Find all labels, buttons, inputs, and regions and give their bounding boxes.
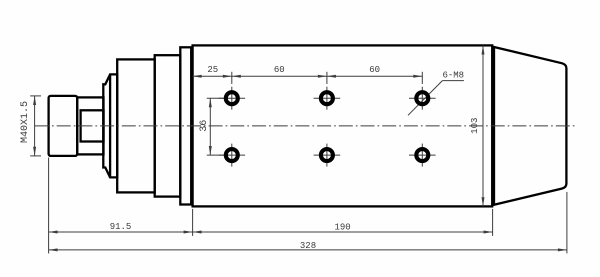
svg-text:190: 190 xyxy=(334,223,350,233)
36 top ext xyxy=(207,97,227,99)
hole r1c2 crosshair xyxy=(314,97,341,99)
103 dim line xyxy=(482,45,484,206)
36 dim line xyxy=(209,98,211,155)
hole r1c3 crosshair xyxy=(409,97,436,99)
nut rear section xyxy=(77,97,103,154)
arrow 60a right xyxy=(318,75,327,78)
arrow 328 left xyxy=(49,248,58,251)
svg-text:328: 328 xyxy=(300,241,316,251)
svg-text:6-M8: 6-M8 xyxy=(442,71,464,81)
hole r1c2 xyxy=(321,92,333,104)
6-M8 leader xyxy=(408,81,442,116)
arrow 60b left xyxy=(327,75,336,78)
front bearing cylinder xyxy=(117,59,155,192)
center line xyxy=(35,125,578,127)
arrow M40 top xyxy=(33,96,36,105)
hole r2c3 crosshair xyxy=(409,154,436,156)
328 dim line xyxy=(49,249,567,251)
arrow 103 top xyxy=(482,45,485,54)
svg-text:36: 36 xyxy=(199,120,210,132)
body-left extension line xyxy=(192,209,194,236)
tick hole col3 xyxy=(421,72,423,84)
main body xyxy=(193,45,493,206)
36 bottom ext xyxy=(207,154,227,156)
svg-text:103: 103 xyxy=(470,118,480,134)
91.5 dim line xyxy=(49,231,193,233)
hole r2c3 xyxy=(416,149,428,161)
dimension texts xyxy=(20,65,480,251)
arrow 328 right xyxy=(558,248,567,251)
M40 bottom tick xyxy=(30,155,41,157)
arrow 91.5 left xyxy=(49,231,58,234)
svg-text:60: 60 xyxy=(369,65,380,75)
arrow 60a left xyxy=(232,75,241,78)
arrow 190 right xyxy=(484,231,493,234)
svg-text:25: 25 xyxy=(207,65,218,75)
arrow 91.5 right xyxy=(184,231,193,234)
hole r2c2 crosshair xyxy=(314,154,341,156)
6-M8 underline xyxy=(442,80,464,82)
tick hole col2 xyxy=(326,72,328,84)
tick hole col1 xyxy=(231,72,233,84)
arrow 60b right xyxy=(413,75,422,78)
arrow 25 left xyxy=(193,75,202,78)
second cylinder xyxy=(155,55,181,196)
cap-right extension line xyxy=(566,192,568,254)
arrow 190 left xyxy=(193,231,202,234)
svg-text:M40X1.5: M40X1.5 xyxy=(20,101,31,143)
hole r2c1 xyxy=(226,149,238,161)
arrow 36 top xyxy=(209,98,212,107)
svg-text:91.5: 91.5 xyxy=(110,222,132,232)
ring front edge line xyxy=(109,74,111,177)
shaft inner rect xyxy=(81,110,104,141)
arrow 103 bottom xyxy=(482,197,485,206)
front flange ring xyxy=(180,47,191,204)
arrowheads xyxy=(33,45,567,251)
M40X1.5 dim line xyxy=(34,96,36,156)
M40 top tick xyxy=(30,95,41,97)
arrow M40 bottom xyxy=(33,147,36,156)
left extension line xyxy=(48,158,50,254)
hole r1c1 crosshair xyxy=(219,97,246,99)
arrow 36 bottom xyxy=(209,146,212,155)
arrow 25 right xyxy=(223,75,232,78)
svg-text:60: 60 xyxy=(274,65,285,75)
mounting holes 6-M8 xyxy=(219,87,436,167)
rear tapered cap xyxy=(494,47,566,205)
top dim line xyxy=(193,75,423,77)
body-right extension line xyxy=(492,209,494,236)
hole r2c1 crosshair xyxy=(219,154,246,156)
hole r1c3 xyxy=(416,92,428,104)
hole r1c1 xyxy=(226,92,238,104)
collet nut xyxy=(49,96,78,156)
chamfered step ring xyxy=(103,74,117,177)
hole r2c2 xyxy=(321,149,333,161)
190 dim line xyxy=(193,231,493,233)
